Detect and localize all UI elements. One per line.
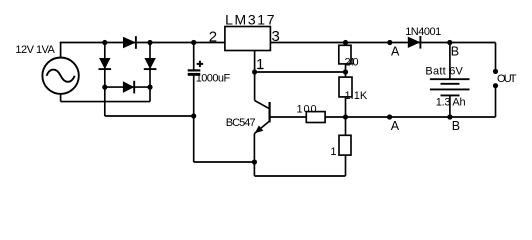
svg-text:1N4001: 1N4001 [405, 26, 441, 38]
svg-text:LM317: LM317 [225, 12, 275, 28]
svg-text:OUT: OUT [497, 73, 517, 85]
svg-text:A: A [391, 44, 400, 58]
svg-text:A: A [391, 119, 400, 133]
svg-text:Batt 6V: Batt 6V [425, 66, 463, 78]
svg-text:B: B [451, 44, 459, 58]
svg-text:B: B [452, 119, 460, 133]
svg-text:240: 240 [345, 57, 359, 69]
svg-text:1.3 Ah: 1.3 Ah [436, 97, 466, 109]
svg-text:3: 3 [272, 28, 280, 45]
svg-text:12V 1VA: 12V 1VA [15, 44, 55, 56]
svg-text:BC547: BC547 [226, 117, 256, 129]
svg-text:2: 2 [209, 28, 217, 45]
svg-text:100: 100 [297, 104, 317, 116]
svg-text:1000uF: 1000uF [196, 72, 231, 84]
svg-text:1.1K: 1.1K [345, 90, 368, 102]
svg-text:1: 1 [330, 146, 336, 158]
svg-text:1: 1 [256, 56, 264, 73]
